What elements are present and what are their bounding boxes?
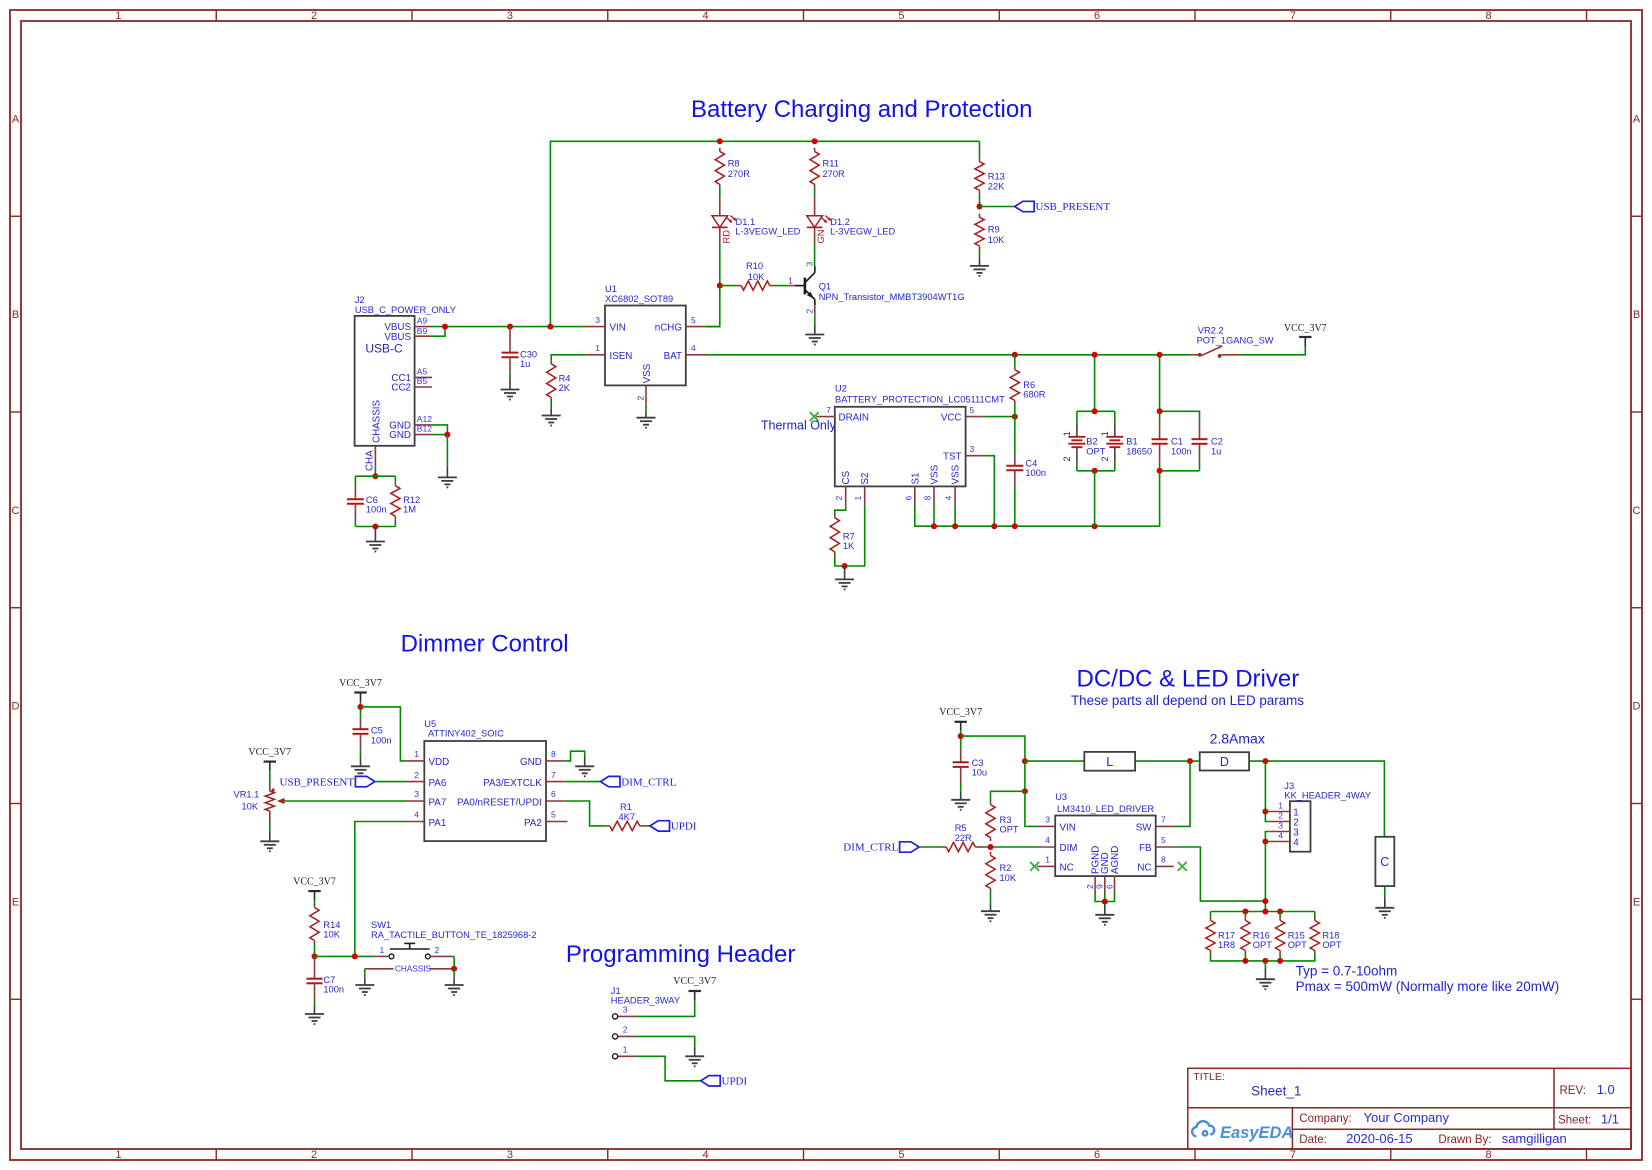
wire rail to VIN — [1025, 791, 1037, 826]
svg-text:DIM_CTRL: DIM_CTRL — [843, 842, 898, 854]
svg-text:6: 6 — [1104, 884, 1114, 889]
switch SW1 RA_TACTILE_BUTTON_TE_1825968-2 — [371, 920, 537, 959]
svg-text:Drawn By:: Drawn By: — [1438, 1134, 1491, 1146]
wire junction to SW1 — [315, 955, 374, 957]
wire R10 left — [720, 285, 736, 287]
svg-text:XC6802_SOT89: XC6802_SOT89 — [605, 294, 673, 304]
svg-text:4: 4 — [1278, 831, 1283, 841]
capacitor C3 — [953, 748, 987, 784]
svg-text:PA2: PA2 — [524, 818, 542, 829]
svg-text:C: C — [1380, 855, 1389, 869]
wire to USB_PRESENT flag — [980, 206, 1015, 208]
svg-text:J3: J3 — [1284, 781, 1294, 791]
resistor R3 — [986, 801, 1019, 841]
svg-text:REV:: REV: — [1560, 1085, 1586, 1097]
svg-text:8: 8 — [1161, 855, 1166, 865]
wire J1 pin3 to VCC — [635, 1000, 694, 1017]
svg-text:C: C — [12, 505, 20, 517]
svg-text:1K: 1K — [843, 541, 855, 551]
svg-text:VBUS: VBUS — [384, 332, 411, 343]
power flag VCC_3V7 (R14) — [293, 876, 336, 900]
svg-text:U1: U1 — [605, 284, 617, 294]
svg-text:3: 3 — [507, 1149, 513, 1161]
junction battery bottom — [1092, 468, 1098, 474]
IC U1 XC6802_SOT89 battery charger — [586, 284, 706, 404]
wire SW up to L/D — [1174, 761, 1190, 826]
svg-text:8: 8 — [1486, 10, 1492, 22]
svg-text:R7: R7 — [843, 532, 855, 542]
svg-text:B: B — [12, 309, 19, 321]
wire to L — [1025, 760, 1084, 762]
wire VR1.1 wiper to PA7 — [285, 800, 406, 802]
net flag DIM_CTRL (U3) — [843, 842, 919, 854]
wire PA3 to DIM_CTRL — [565, 781, 601, 783]
wire R5 to DIM — [983, 846, 1037, 848]
svg-text:TITLE:: TITLE: — [1193, 1071, 1225, 1083]
svg-text:Programming Header: Programming Header — [566, 941, 795, 968]
wire VSS8 down — [933, 505, 935, 526]
svg-text:6: 6 — [1094, 10, 1100, 22]
junction battery top — [1092, 408, 1098, 414]
svg-text:CS: CS — [841, 470, 852, 484]
svg-text:E: E — [12, 896, 19, 908]
svg-text:UPDI: UPDI — [722, 1076, 748, 1088]
wire PA1 to SW1 — [355, 822, 406, 957]
diode D (block) — [1200, 752, 1249, 770]
svg-text:270R: 270R — [823, 169, 846, 179]
wire J3 pin1 stub — [1265, 811, 1269, 813]
ground R9 — [970, 266, 989, 276]
svg-text:100n: 100n — [371, 735, 392, 745]
LED D1.1 L-3VEGW_LED — [712, 196, 801, 244]
svg-text:5: 5 — [898, 10, 904, 22]
resistor R12 — [391, 482, 420, 519]
junction top rail / R11 — [812, 138, 818, 144]
ground C5 — [351, 766, 370, 776]
wire J3 pin4 stub — [1265, 841, 1269, 843]
svg-text:PA6: PA6 — [429, 778, 447, 789]
wire VCC to L rail — [961, 736, 1025, 761]
svg-text:ATTINY402_SOIC: ATTINY402_SOIC — [428, 729, 504, 739]
svg-text:Dimmer Control: Dimmer Control — [401, 631, 569, 658]
resistor R7 — [830, 514, 855, 555]
wire R12 bottom — [394, 520, 396, 527]
svg-text:PA1: PA1 — [429, 818, 447, 829]
ground J2 GND — [438, 477, 457, 487]
svg-text:GND: GND — [520, 757, 542, 768]
svg-text:2: 2 — [414, 770, 419, 780]
wire B1 top lead — [1114, 411, 1116, 422]
svg-text:2: 2 — [1100, 456, 1110, 461]
svg-text:D1.1: D1.1 — [736, 217, 756, 227]
svg-text:6: 6 — [903, 496, 913, 501]
wire D to C block — [1249, 761, 1384, 837]
svg-text:C2: C2 — [1211, 437, 1223, 447]
junction D out/J3 feed — [1262, 758, 1268, 764]
svg-text:DC/DC & LED Driver: DC/DC & LED Driver — [1077, 666, 1300, 693]
junction chassis bottom — [372, 524, 378, 530]
wire L to D — [1135, 760, 1200, 762]
svg-text:KK_HEADER_4WAY: KK_HEADER_4WAY — [1284, 790, 1371, 800]
svg-text:2: 2 — [623, 1025, 628, 1035]
svg-text:L-3VEGW_LED: L-3VEGW_LED — [830, 227, 895, 237]
wire pot to VCC_3V7 — [1240, 346, 1306, 355]
svg-text:2: 2 — [1062, 456, 1072, 461]
wire GND pin jog — [565, 751, 585, 761]
svg-text:6: 6 — [1094, 1149, 1100, 1161]
wire R14 to junction — [314, 944, 316, 956]
svg-text:FB: FB — [1139, 843, 1152, 854]
wire VCC to C3 junction — [960, 730, 962, 748]
ground C7 — [305, 1014, 324, 1024]
wire TST down — [983, 456, 994, 527]
wire C30 bottom — [509, 372, 511, 378]
svg-text:1: 1 — [1278, 801, 1283, 811]
wire R6 to VCC junction — [1014, 404, 1016, 417]
junction bus VSS8 — [931, 523, 937, 529]
connector J3 KK_HEADER_4WAY — [1270, 781, 1371, 852]
svg-text:D1.2: D1.2 — [830, 217, 850, 227]
svg-text:VSS: VSS — [642, 363, 653, 383]
svg-text:3: 3 — [804, 262, 814, 267]
wire VBUS to VIN — [432, 326, 586, 328]
ground R2 — [981, 911, 1000, 921]
svg-text:VCC_3V7: VCC_3V7 — [248, 747, 291, 758]
resistor R14 — [310, 904, 341, 944]
junction bus TST — [991, 523, 997, 529]
svg-text:R12: R12 — [403, 495, 420, 505]
svg-text:2020-06-15: 2020-06-15 — [1346, 1131, 1413, 1146]
wire U1 VSS — [645, 405, 647, 411]
svg-text:Thermal Only: Thermal Only — [761, 419, 837, 433]
wire R11 to D1.2 — [814, 188, 816, 196]
junction VCC/R6/C4 — [1012, 414, 1018, 420]
resistor R8 — [715, 148, 750, 188]
svg-text:2.8Amax: 2.8Amax — [1210, 731, 1265, 747]
svg-text:DIM: DIM — [1060, 843, 1078, 854]
resistor R16 — [1241, 917, 1272, 954]
resistor R18 — [1310, 917, 1342, 954]
svg-text:4: 4 — [944, 496, 954, 501]
connector J2 USB_C_POWER_ONLY — [355, 295, 456, 466]
svg-text:1u: 1u — [520, 359, 530, 369]
resistor R15 — [1276, 917, 1308, 954]
resistor R10 — [736, 261, 776, 290]
svg-text:VDD: VDD — [429, 757, 450, 768]
resistor R5 22R — [942, 823, 984, 852]
svg-text:PA3/EXTCLK: PA3/EXTCLK — [483, 778, 542, 789]
wire R bank bottom bus — [1211, 954, 1315, 961]
svg-text:2: 2 — [635, 396, 645, 401]
svg-text:R4: R4 — [559, 373, 571, 383]
ground U2 — [835, 579, 854, 589]
junction BAT/R6 — [1012, 352, 1018, 358]
svg-text:CHASSIS: CHASSIS — [372, 400, 383, 443]
wire J1 pin2 to ground — [635, 1036, 694, 1047]
svg-text:2: 2 — [1278, 811, 1283, 821]
ground J1 pin2 — [685, 1056, 704, 1066]
svg-text:These parts all depend on LED: These parts all depend on LED params — [1071, 693, 1304, 708]
svg-text:2: 2 — [1085, 884, 1095, 889]
svg-text:L: L — [1106, 755, 1113, 769]
svg-text:samgilligan: samgilligan — [1502, 1131, 1567, 1146]
wire B2 top lead — [1076, 411, 1078, 422]
svg-text:BAT: BAT — [664, 351, 682, 362]
resistor R17 — [1206, 917, 1235, 954]
wire BAT to C1 top — [1159, 355, 1161, 412]
svg-text:R1: R1 — [620, 802, 632, 812]
svg-text:C4: C4 — [1025, 459, 1037, 469]
wire ISEN to R4 — [551, 355, 586, 361]
ground SW1 right — [445, 985, 464, 995]
net flag UPDI (J1) — [701, 1076, 748, 1088]
IC U5 ATTINY402_SOIC — [406, 719, 568, 841]
ground VR1.1 — [260, 841, 279, 851]
svg-text:5: 5 — [970, 405, 975, 415]
svg-text:3: 3 — [414, 789, 419, 799]
svg-text:1: 1 — [115, 10, 121, 22]
potentiometer switch VR2.2 POT_1GANG_SW — [1191, 325, 1274, 358]
svg-text:VSS: VSS — [930, 464, 941, 484]
wire C4 to GND bus — [1014, 487, 1016, 526]
junction bank top feed — [1262, 909, 1268, 915]
junction VBUS/riser — [547, 324, 553, 330]
ground SW1 left — [355, 985, 374, 995]
svg-text:LM3410_LED_DRIVER: LM3410_LED_DRIVER — [1057, 804, 1154, 814]
svg-text:2: 2 — [311, 10, 317, 22]
svg-text:AGND: AGND — [1110, 846, 1121, 874]
wire GND B12 — [432, 434, 447, 436]
wire C1 top lead — [1159, 411, 1161, 421]
ground U3 — [1095, 915, 1114, 925]
wire C block bottom — [1384, 886, 1386, 897]
svg-text:A9: A9 — [417, 316, 428, 326]
wire R17 top — [1210, 912, 1212, 918]
svg-text:R10: R10 — [746, 261, 763, 271]
potentiometer VR1.1 10K — [234, 784, 285, 821]
svg-text:VR1.1: VR1.1 — [234, 790, 260, 800]
svg-text:DRAIN: DRAIN — [839, 413, 869, 424]
svg-text:4: 4 — [414, 810, 419, 820]
svg-text:Battery Charging and Protectio: Battery Charging and Protection — [691, 96, 1033, 123]
svg-text:3: 3 — [970, 444, 975, 454]
wire VCC junction to C4 — [1014, 417, 1016, 455]
svg-text:4: 4 — [1045, 835, 1050, 845]
wire C3 bottom — [960, 784, 962, 792]
svg-text:nCHG: nCHG — [655, 323, 682, 334]
svg-text:B9: B9 — [417, 326, 428, 336]
junction rail/R3/VIN — [1022, 788, 1028, 794]
power flag VCC_3V7 (J1) — [673, 976, 716, 1000]
wire BAT to battery top — [1094, 355, 1096, 412]
svg-text:1: 1 — [1062, 431, 1072, 436]
wire R1 to UPDI flag — [646, 825, 650, 827]
wire battery to GND bus — [1094, 471, 1096, 526]
svg-text:VCC_3V7: VCC_3V7 — [339, 678, 382, 689]
svg-text:PA0/nRESET/UPDI: PA0/nRESET/UPDI — [457, 797, 542, 808]
resistor R6 — [1010, 366, 1046, 404]
wire C6 top lead — [354, 476, 356, 488]
svg-text:Sheet:: Sheet: — [1558, 1114, 1591, 1126]
ground R4 — [542, 416, 561, 426]
svg-text:C1: C1 — [1171, 437, 1183, 447]
svg-text:5: 5 — [691, 315, 696, 325]
wire DIM_CTRL to R5 — [919, 846, 941, 848]
capacitor C (block) — [1375, 837, 1394, 886]
svg-text:2: 2 — [804, 309, 814, 314]
svg-text:4: 4 — [1293, 838, 1299, 849]
svg-text:4: 4 — [703, 1149, 709, 1161]
svg-text:E: E — [1633, 896, 1640, 908]
svg-text:C7: C7 — [323, 975, 335, 985]
net flag UPDI (R1) — [650, 821, 697, 833]
svg-text:TST: TST — [943, 452, 962, 463]
wire R15 top — [1279, 912, 1281, 918]
junction J3 pin4 — [1262, 839, 1268, 845]
svg-text:C3: C3 — [972, 758, 984, 768]
wire CS to R7 — [835, 505, 846, 514]
LED D1.2 L-3VEGW_LED — [807, 196, 896, 244]
wire B2 bottom lead — [1076, 462, 1078, 471]
svg-text:3: 3 — [1278, 821, 1283, 831]
ground C block — [1375, 908, 1394, 918]
wire R8 to D1.1 — [719, 188, 721, 196]
wire SW1 pin2 down — [453, 956, 455, 968]
svg-text:3: 3 — [507, 10, 513, 22]
ground chassis — [366, 542, 385, 552]
junction bank top R15 — [1277, 909, 1283, 915]
wire VDD feed — [361, 707, 406, 761]
svg-text:4K7: 4K7 — [619, 812, 636, 822]
svg-text:Company:: Company: — [1299, 1113, 1351, 1125]
svg-text:Your Company: Your Company — [1364, 1110, 1450, 1125]
junction U3 gnd — [1102, 899, 1108, 905]
ground U5 GND — [575, 766, 594, 776]
svg-text:B12: B12 — [417, 424, 432, 434]
net flag USB_PRESENT — [1015, 201, 1111, 213]
svg-text:10K: 10K — [1000, 873, 1017, 883]
svg-text:OPT: OPT — [1000, 824, 1019, 834]
wire FB to sense — [1174, 847, 1266, 901]
svg-text:1: 1 — [380, 945, 385, 955]
svg-text:22K: 22K — [988, 182, 1005, 192]
ground C3 — [951, 800, 970, 810]
wire D1.2 to Q1 collector — [814, 244, 816, 267]
svg-text:2: 2 — [834, 496, 844, 501]
wire BAT to R6 — [1014, 355, 1016, 366]
IC U3 LM3410_LED_DRIVER — [1037, 792, 1174, 893]
svg-text:3: 3 — [595, 315, 600, 325]
wire BAT rail — [706, 354, 1191, 356]
svg-text:R9: R9 — [988, 225, 1000, 235]
ground R bank — [1256, 979, 1275, 989]
junction VBUS/C30 — [507, 324, 513, 330]
resistor R4 — [547, 360, 571, 401]
svg-text:5: 5 — [551, 810, 556, 820]
svg-text:R3: R3 — [1000, 815, 1012, 825]
wire C7 bottom — [314, 1000, 316, 1006]
svg-text:10K: 10K — [242, 801, 259, 811]
title block texts — [1193, 1071, 1619, 1146]
power flag VCC_3V7 (C3) — [939, 707, 982, 731]
svg-text:7: 7 — [1161, 815, 1166, 825]
wire B1 bottom lead — [1114, 462, 1116, 471]
wire battery top bus — [1077, 410, 1115, 412]
junction bank bottom R15 — [1277, 958, 1283, 964]
svg-text:18650: 18650 — [1126, 446, 1152, 456]
wire Q1 emitter — [814, 316, 816, 326]
svg-text:C6: C6 — [366, 495, 378, 505]
IC U2 BATTERY_PROTECTION_LC05111CMT — [816, 384, 1005, 506]
wire VBUS riser and top rail — [550, 141, 979, 326]
wire VCC to VR1.1 — [269, 770, 271, 785]
svg-text:USB-C: USB-C — [365, 342, 403, 356]
svg-text:C: C — [1633, 505, 1641, 517]
wire VR1.1 bottom — [269, 821, 271, 832]
svg-text:J2: J2 — [355, 295, 365, 305]
wire J3 pins 1-2 feed — [1265, 761, 1269, 821]
svg-text:OPT: OPT — [1253, 940, 1272, 950]
svg-text:CHASSIS: CHASSIS — [395, 965, 431, 974]
svg-text:VIN: VIN — [610, 323, 626, 334]
wire J3 pins 3-4 return — [1265, 832, 1269, 912]
wire U3 gnd mid — [1104, 893, 1106, 902]
svg-text:1: 1 — [414, 749, 419, 759]
svg-text:BATTERY_PROTECTION_LC05111CMT: BATTERY_PROTECTION_LC05111CMT — [835, 394, 1005, 404]
svg-text:R11: R11 — [823, 158, 839, 168]
wire PA0 to R1 — [565, 801, 606, 826]
svg-text:OPT: OPT — [1288, 940, 1307, 950]
wire R16 bottom — [1244, 954, 1246, 961]
svg-text:D: D — [1633, 701, 1641, 713]
svg-text:2: 2 — [311, 1149, 317, 1161]
svg-text:CHA: CHA — [365, 450, 376, 471]
junction bank top R16 — [1242, 909, 1248, 915]
transistor Q1 NPN MMBT3904 — [788, 262, 964, 316]
svg-text:NPN_Transistor_MMBT3904WT1G: NPN_Transistor_MMBT3904WT1G — [819, 292, 965, 302]
resistor R11 — [810, 148, 845, 188]
svg-text:R8: R8 — [728, 158, 740, 168]
wire C2 bottom lead — [1199, 462, 1201, 471]
wire USB_PRESENT to PA6 — [375, 781, 406, 783]
junction chassis top — [372, 473, 378, 479]
svg-text:2K: 2K — [559, 383, 571, 393]
no-connect X at U2 DRAIN — [810, 412, 819, 421]
junction SW1/chassis — [451, 966, 457, 972]
svg-text:1: 1 — [853, 496, 863, 501]
svg-text:NC: NC — [1060, 862, 1074, 873]
svg-text:1: 1 — [595, 343, 600, 353]
resistor R1 4K7 — [605, 802, 646, 831]
svg-text:R13: R13 — [988, 171, 1005, 181]
svg-text:ISEN: ISEN — [610, 351, 633, 362]
junction bus VSS4 — [952, 523, 958, 529]
no-connect X at U3 NC1 — [1030, 862, 1039, 871]
junction R7/S2/ground — [842, 563, 848, 569]
svg-text:7: 7 — [1290, 1149, 1296, 1161]
svg-text:100n: 100n — [1025, 468, 1046, 478]
svg-text:7: 7 — [826, 405, 831, 415]
wire R4 bottom — [550, 401, 552, 409]
svg-text:1: 1 — [788, 275, 793, 285]
junction VCC/C5/VDD — [358, 704, 364, 710]
svg-text:1: 1 — [623, 1045, 628, 1055]
svg-text:S2: S2 — [860, 473, 871, 485]
wire R12 top — [394, 476, 396, 482]
svg-text:100n: 100n — [1171, 446, 1192, 456]
svg-text:USB_PRESENT: USB_PRESENT — [1036, 201, 1111, 213]
svg-text:VCC_3V7: VCC_3V7 — [1284, 323, 1327, 334]
